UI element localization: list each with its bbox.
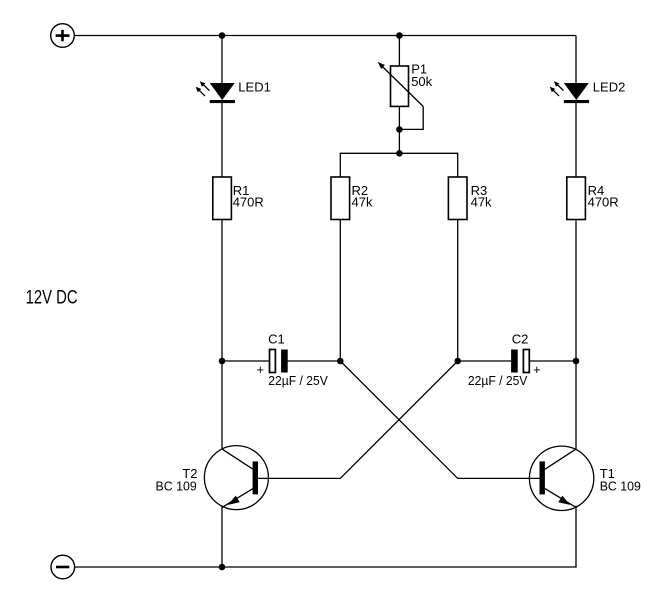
LED LED2 [550, 81, 589, 103]
wire T2 emitter to bottom rail [221, 506, 223, 567]
wire C2 to right rail [529, 360, 576, 362]
node bias junction [396, 150, 403, 157]
battery positive terminal [51, 24, 75, 48]
label R2 47k [352, 183, 373, 210]
wire P1 bottom to bias node [398, 106, 400, 153]
wire T1 emitter to bottom rail [575, 506, 577, 567]
node top-middle junction [396, 32, 403, 39]
label T1 BC 109 [600, 466, 641, 494]
label R1 470R [233, 183, 264, 210]
wire LED2 to R4 [575, 103, 577, 177]
wire right branch to LED2 [575, 36, 577, 85]
resistor R4 [567, 177, 586, 220]
svg-text:470R: 470R [588, 195, 619, 210]
wire cross-coupling node B to T2 base [258, 361, 458, 478]
svg-text:22µF / 25V: 22µF / 25V [268, 373, 328, 388]
label R3 47k [471, 183, 492, 210]
potentiometer P1 [378, 62, 424, 107]
wire R2 to node A [339, 220, 341, 362]
wire bottom supply rail [75, 566, 576, 567]
resistor R2 [331, 177, 350, 220]
svg-text:22µF / 25V: 22µF / 25V [468, 373, 528, 388]
svg-text:BC 109: BC 109 [156, 478, 197, 493]
wire C2 node to T1 collector [575, 361, 577, 449]
svg-text:470R: 470R [233, 195, 264, 210]
svg-text:C2: C2 [512, 332, 529, 347]
node C2 right [573, 358, 580, 365]
wire node B to C2 [458, 360, 512, 362]
resistor R1 [213, 177, 232, 220]
svg-text:LED1: LED1 [238, 80, 271, 95]
label R4 470R [588, 183, 619, 210]
label P1 50k [411, 62, 432, 89]
transistor T1 [529, 446, 593, 510]
wire P1 branch from top rail [398, 36, 400, 67]
svg-text:LED2: LED2 [593, 80, 626, 95]
wire top supply rail [74, 35, 576, 37]
node B [454, 358, 461, 365]
node wiper junction [396, 126, 403, 133]
svg-text:50k: 50k [411, 74, 432, 89]
svg-text:+: + [533, 362, 541, 377]
wire C1 node to T2 collector [221, 361, 223, 449]
wire R1 to C1 node [221, 220, 223, 362]
battery negative terminal [51, 555, 75, 579]
wire P1 wiper to bottom terminal [399, 106, 423, 129]
wire LED1 to R1 [221, 103, 223, 177]
wire R3 to node B [457, 220, 459, 362]
node A [337, 358, 344, 365]
svg-text:12V DC: 12V DC [26, 288, 78, 309]
svg-text:BC 109: BC 109 [600, 478, 641, 493]
svg-text:47k: 47k [471, 195, 492, 210]
capacitor C1 [270, 350, 288, 373]
svg-text:+: + [257, 362, 265, 377]
svg-text:47k: 47k [352, 195, 373, 210]
node C1 left [219, 358, 226, 365]
node top-left junction [219, 32, 226, 39]
capacitor C2 [511, 350, 529, 373]
resistor R3 [448, 177, 467, 220]
node bottom-left junction [219, 564, 226, 571]
wire left branch to LED1 [221, 36, 223, 85]
wire C1 to node A [288, 360, 341, 362]
wire cross-coupling node A to T1 base [340, 361, 539, 478]
svg-text:C1: C1 [268, 332, 285, 347]
LED LED1 [196, 81, 235, 103]
wire bias rail to R2 and R3 [340, 153, 457, 177]
wire left rail to C1 [222, 360, 270, 362]
label T2 BC 109 [156, 466, 198, 494]
wire R4 to C2 node [575, 220, 577, 362]
transistor T2 [204, 446, 268, 510]
